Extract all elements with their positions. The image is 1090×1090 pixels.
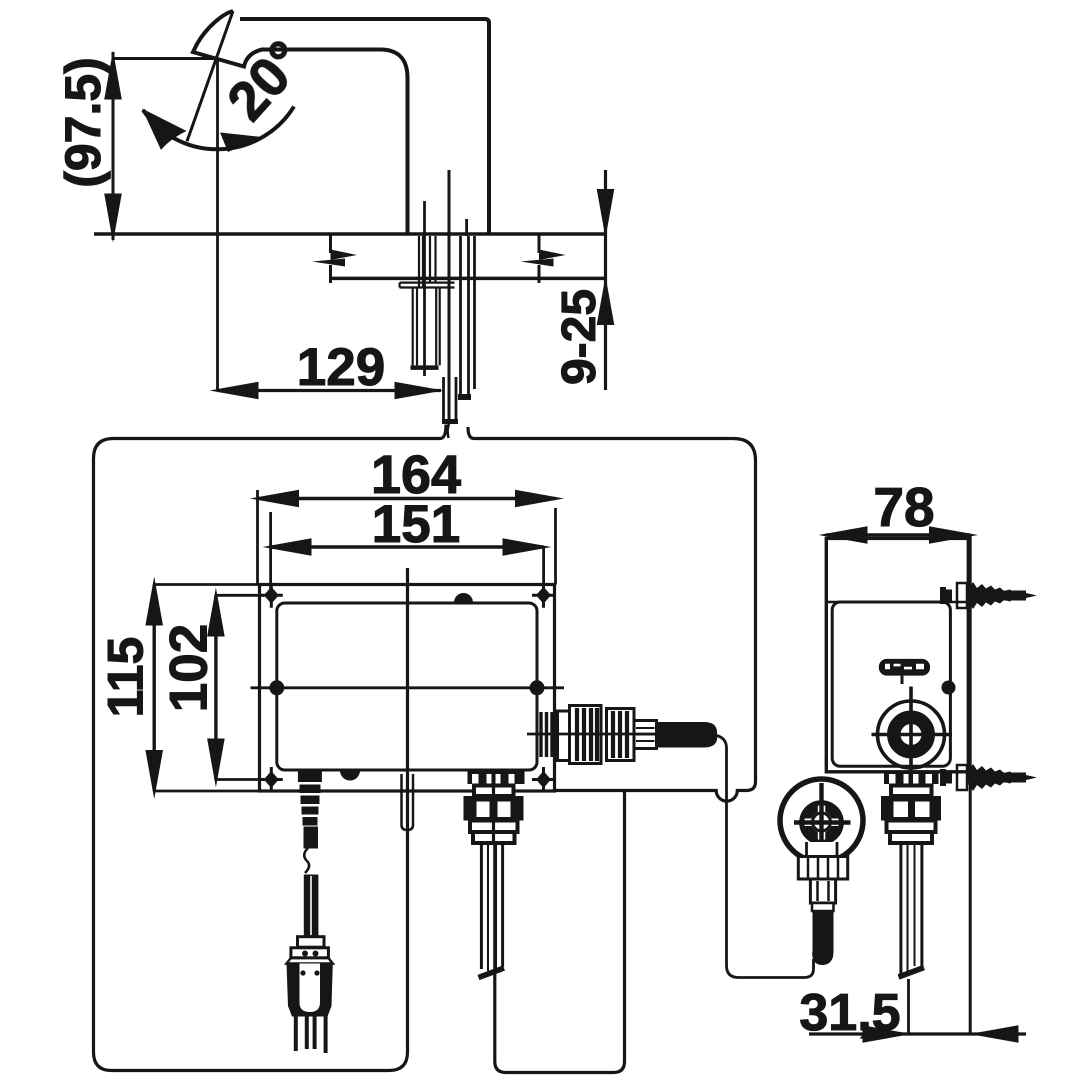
- drain band A: [891, 786, 932, 797]
- deck break symbol right: [521, 234, 566, 283]
- deck break symbol left: [312, 234, 357, 283]
- plug body white panel: [300, 964, 321, 1013]
- svg-text:151: 151: [372, 495, 460, 554]
- arc arrowhead right: [220, 133, 262, 153]
- plug collar 1: [298, 937, 325, 948]
- lock nut bottom cap: [411, 365, 439, 370]
- arc arrowhead left: [142, 109, 187, 151]
- right unit outer box: [826, 538, 968, 771]
- solenoid connector block 2: [607, 709, 635, 761]
- plug prongs: [296, 1017, 326, 1054]
- dim 78 line: [826, 533, 970, 536]
- plug panel dots: [300, 970, 305, 975]
- side screws on lid edges: [269, 680, 284, 695]
- svg-text:102: 102: [160, 624, 219, 712]
- svg-text:115: 115: [98, 637, 154, 718]
- drain band B: [887, 821, 936, 833]
- valve black ring: [894, 717, 928, 751]
- drain castellated row: [884, 772, 939, 784]
- drain band C: [890, 832, 932, 843]
- hose A walls: [444, 377, 457, 419]
- right extension line long: [969, 535, 972, 1035]
- big outline right: lip, top edge, right edge, return with wire hop: [468, 427, 756, 801]
- sensor mount block: [798, 857, 847, 880]
- pill tick: [901, 676, 904, 684]
- wall anchor screw top: [940, 582, 1037, 609]
- svg-text:20°: 20°: [215, 29, 317, 132]
- dim 151 line: [271, 545, 544, 548]
- sensor neck: [807, 842, 838, 857]
- supply fitting center line: [492, 772, 495, 844]
- plug body: [287, 964, 333, 1017]
- plug shoulder: [287, 958, 333, 964]
- solenoid connector flange: [558, 711, 570, 761]
- svg-text:31,5: 31,5: [799, 984, 900, 1042]
- faucet outer outline: [240, 19, 489, 234]
- faucet vertical centerline: [216, 59, 219, 391]
- dim 164 extension lines: [258, 490, 556, 585]
- wire below hose A into gap: [448, 424, 449, 438]
- sensor inner disc: [802, 803, 841, 842]
- dim 31.5 line: [809, 1032, 1026, 1035]
- dim 102 line: [214, 595, 217, 779]
- sensor neck block: [810, 879, 835, 903]
- power cable gland at box bottom: [298, 770, 322, 849]
- svg-text:(97.5): (97.5): [55, 57, 111, 188]
- dim 102 extension lines: [216, 595, 264, 779]
- valve outer circle: [878, 701, 945, 768]
- sensor small circle: [811, 812, 832, 833]
- counter deck bottom line: [331, 277, 608, 281]
- svg-text:129: 129: [297, 338, 385, 397]
- right unit seam line: [826, 601, 968, 604]
- dim 9-25 vertical line: [604, 170, 607, 390]
- solenoid connector neck: [634, 721, 657, 749]
- wall anchor screw bottom: [940, 764, 1037, 791]
- solenoid connector ribs at box edge: [541, 712, 552, 757]
- middle U outline: [495, 791, 625, 1073]
- dim 115 line: [152, 585, 155, 792]
- unit label pill: [879, 659, 930, 676]
- dim 129 line: [218, 389, 442, 392]
- control box mid horizontal line: [251, 686, 565, 689]
- nozzle axis line 20 deg: [187, 11, 233, 141]
- faucet shank thread lines above deck: [419, 236, 436, 288]
- solenoid cable: [657, 722, 718, 748]
- dim (97.5) extension line top: [113, 57, 218, 60]
- faucet shank rod: [423, 201, 426, 376]
- corner screws: [260, 583, 283, 608]
- dim (97.5) vertical line: [112, 52, 115, 240]
- hose B walls: [461, 236, 475, 394]
- top dome on lid: [454, 593, 473, 603]
- plug collar 2: [291, 948, 329, 958]
- right unit inner cover: [832, 602, 950, 766]
- supply hose end cap: [479, 968, 505, 978]
- supply fitting band C: [473, 832, 515, 843]
- hose B cap: [458, 394, 471, 400]
- counter deck top line: [94, 232, 607, 236]
- dim 115 extension lines: [154, 585, 259, 792]
- hose A cap: [442, 419, 458, 424]
- plug shoulder dots: [302, 951, 308, 957]
- mounting flange under deck: [400, 283, 455, 288]
- drain pipe end cap: [899, 968, 925, 978]
- wire from solenoid cable to sensor: [715, 735, 814, 978]
- solenoid connector block 1: [570, 706, 602, 764]
- supply fitting nut: [464, 796, 524, 821]
- supply fitting band A: [474, 786, 514, 797]
- bottom dome on lid: [340, 771, 360, 781]
- sensor cable center: [448, 170, 451, 420]
- control box inner rounded lid: [277, 603, 537, 770]
- power cord lower: [304, 875, 319, 937]
- drain pipe: [901, 843, 922, 974]
- side bump on inner cover: [942, 681, 956, 695]
- dim (97.5) arrows: [104, 51, 122, 100]
- sensor body outer circle: [780, 779, 863, 862]
- power cord squiggle: [304, 848, 309, 873]
- supply hose: [481, 843, 502, 969]
- supply fitting castellated row: [468, 772, 525, 785]
- dim 129 arrows: [210, 382, 259, 400]
- svg-text:78: 78: [873, 476, 934, 538]
- solenoid connector axis line: [527, 733, 660, 736]
- valve crosshair: [872, 687, 953, 844]
- dim 151 extension lines: [271, 512, 544, 590]
- supply fitting band B: [470, 821, 518, 833]
- control box outer: [260, 585, 555, 792]
- sensor cable black: [812, 911, 833, 965]
- sensor crosshair: [794, 820, 851, 824]
- dim 9-25 arrows: [597, 189, 615, 238]
- sensor tube at box bottom center: [402, 774, 414, 830]
- lock nut under deck: [413, 288, 440, 366]
- big outline left: lip, top edge, left edge, bottom, center vertical: [94, 425, 447, 1071]
- sensor waist: [812, 903, 834, 911]
- drain nut: [881, 796, 941, 821]
- dim 164 line: [258, 497, 555, 500]
- pipe center extension: [907, 979, 910, 1034]
- svg-text:9-25: 9-25: [553, 289, 606, 385]
- swing arc 20 deg: [143, 107, 294, 150]
- faucet nozzle and inner outline: [193, 11, 408, 234]
- hose B rod above deck: [465, 219, 468, 236]
